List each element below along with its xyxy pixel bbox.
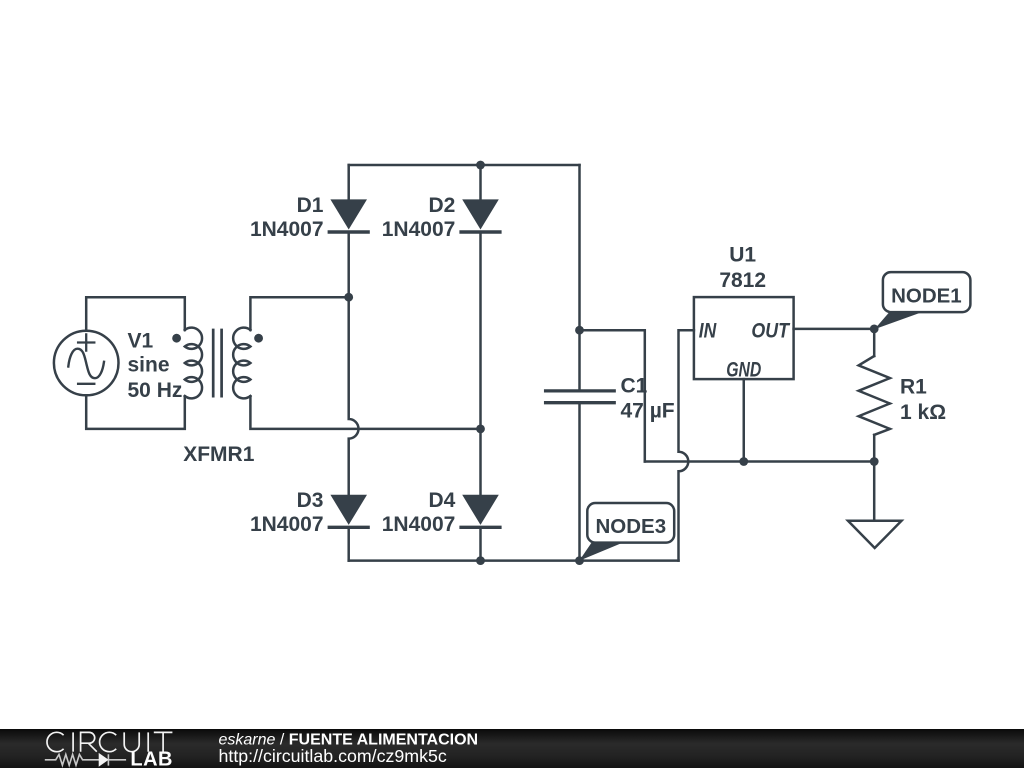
junction OUT / NODE1 anchor (870, 325, 879, 334)
junction secondary bottom / D2 (476, 425, 485, 434)
diode D3 (329, 495, 368, 528)
svg-text:D3: D3 (297, 489, 324, 512)
svg-text:1N4007: 1N4007 (250, 513, 324, 536)
node NODE1 flag (875, 272, 971, 329)
footer bar (0, 729, 1024, 768)
wire V1 top to XFMR1 primary (86, 297, 185, 331)
wire R1 top lead (873, 329, 876, 356)
svg-text:NODE1: NODE1 (891, 284, 962, 307)
svg-text:V1: V1 (128, 329, 154, 352)
transformer XFMR1 secondary coil (233, 328, 250, 399)
junction R1 bottom / ground (870, 457, 879, 466)
wire U1 OUT to NODE1 (794, 328, 875, 331)
svg-text:D4: D4 (428, 489, 455, 512)
svg-text:1 kΩ: 1 kΩ (900, 401, 946, 424)
svg-text:47 µF: 47 µF (621, 400, 675, 423)
junction D4 bottom rail (476, 556, 485, 565)
XFMR1 secondary polarity dot (254, 334, 263, 343)
junction C1 bottom / NODE3 anchor (575, 556, 584, 565)
svg-text:LAB: LAB (130, 748, 173, 768)
node NODE3 flag (579, 503, 674, 561)
wire U1 GND pin (743, 379, 746, 461)
wire D1 branch with hop over secondary wire (349, 165, 359, 561)
wire D2 branch (479, 165, 482, 561)
source V1 (54, 331, 119, 396)
svg-text:GND: GND (726, 359, 761, 382)
svg-text:U1: U1 (729, 243, 756, 266)
svg-text:7812: 7812 (719, 269, 766, 292)
wire R1 bottom lead (873, 435, 876, 462)
svg-text:C1: C1 (621, 375, 648, 398)
diode D1 (329, 199, 368, 232)
wire ground rail (645, 460, 874, 463)
diode D4 (461, 495, 500, 528)
wire bottom rail (349, 559, 679, 562)
svg-text:sine: sine (128, 353, 170, 376)
junction C1 top branch (575, 326, 584, 335)
transformer XFMR1 core (213, 330, 221, 396)
resistor R1 (859, 356, 890, 435)
junction U1 GND / ground rail (739, 457, 748, 466)
svg-text:NODE3: NODE3 (595, 515, 666, 538)
regulator U1 box (694, 297, 794, 379)
wire C1 bottom to bottom rail (578, 404, 581, 560)
CircuitLab logo wordmark CIRCUIT (47, 732, 172, 751)
svg-text:D2: D2 (428, 194, 455, 217)
wire top rail down to capacitor C1 (578, 165, 581, 390)
svg-text:50 Hz: 50 Hz (128, 379, 183, 402)
wire secondary top to bridge (250, 297, 348, 330)
svg-text:1N4007: 1N4007 (382, 218, 456, 241)
junction secondary top / D1 (344, 293, 353, 302)
svg-text:1N4007: 1N4007 (250, 218, 324, 241)
wire NODE3 riser to U1 IN with hop over ground rail (679, 330, 694, 560)
wire secondary bottom to bridge (250, 396, 480, 429)
CircuitLab logo resistor-diode doodle (45, 754, 126, 765)
XFMR1 primary polarity dot (172, 334, 181, 343)
capacitor C1 (546, 391, 615, 403)
wire top rail (349, 164, 580, 167)
transformer XFMR1 primary coil (185, 328, 202, 399)
svg-text:1N4007: 1N4007 (382, 513, 456, 536)
svg-text:OUT: OUT (751, 320, 790, 343)
svg-text:http://circuitlab.com/cz9mk5c: http://circuitlab.com/cz9mk5c (219, 746, 447, 766)
wire C1 junction to ground rail corner (580, 330, 645, 461)
svg-text:R1: R1 (900, 375, 927, 398)
junction top rail / D2 (476, 161, 485, 170)
svg-text:D1: D1 (297, 194, 324, 217)
ground (848, 521, 902, 548)
wire V1 bottom to XFMR1 primary (86, 395, 185, 429)
svg-text:IN: IN (699, 320, 717, 343)
svg-text:XFMR1: XFMR1 (183, 443, 254, 466)
diode D2 (461, 199, 500, 232)
wire to ground symbol (873, 462, 876, 521)
